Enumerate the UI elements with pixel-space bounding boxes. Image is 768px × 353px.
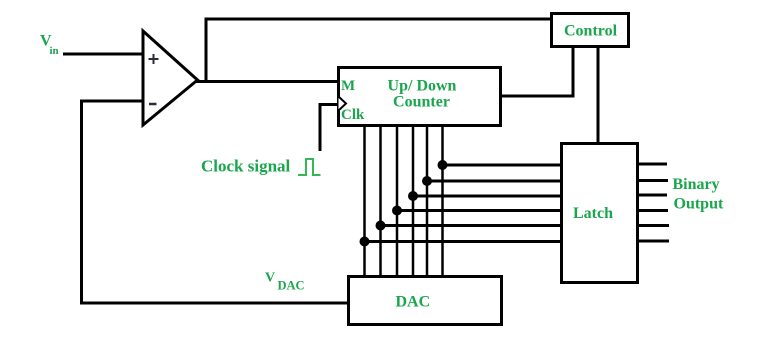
wire Vin to comparator + input [63, 53, 143, 56]
node Vin label [40, 33, 59, 58]
block Up/Down Counter [339, 68, 501, 126]
bus wire bit4 vertical [379, 126, 382, 277]
block DAC [349, 277, 502, 325]
op-amp comparator [143, 31, 198, 125]
bus wire bit5 vertical [363, 126, 366, 277]
junction bit4 [376, 221, 386, 231]
svg-text:Clock signal: Clock signal [201, 157, 291, 176]
wire feedback from DAC to comparator - input [82, 101, 349, 303]
clock edge triangle symbol on counter [339, 97, 347, 111]
svg-text:Binary: Binary [673, 176, 720, 193]
wire bit5 to Latch [365, 240, 562, 243]
svg-text:Latch: Latch [573, 205, 613, 222]
svg-text:in: in [50, 45, 59, 57]
label Up/ Down Counter [388, 78, 457, 111]
wire comparator output to counter M input [196, 80, 339, 83]
svg-text:DAC: DAC [396, 294, 431, 311]
bus wire bit1 vertical [426, 126, 429, 277]
junction bit0 [438, 160, 448, 170]
wire bit2 to Latch [413, 195, 561, 198]
comparator + pin mark [149, 54, 159, 64]
wire bit3 to Latch [397, 209, 561, 212]
svg-text:Output: Output [674, 196, 724, 213]
latch output stub 1 [638, 163, 667, 166]
bus wire bit0 vertical [441, 126, 444, 277]
latch output stub 3 [638, 194, 667, 197]
svg-text:Clk: Clk [341, 107, 365, 123]
svg-text:Up/ Down: Up/ Down [388, 78, 457, 95]
wire bit1 to Latch [427, 180, 561, 183]
wire bit4 to Latch [381, 224, 562, 227]
block Latch [562, 144, 638, 283]
block Control [552, 14, 629, 47]
junction bit5 [360, 237, 370, 247]
bus wire bit2 vertical [412, 126, 415, 277]
junction bit3 [392, 206, 402, 216]
node VDAC label [265, 271, 305, 293]
wire counter output to Control [501, 47, 573, 96]
junction bit2 [408, 191, 418, 201]
svg-text:M: M [341, 78, 355, 94]
label Binary Output [673, 176, 724, 213]
latch output stub 6 [638, 240, 669, 243]
bus wire bit3 vertical [396, 126, 399, 277]
junction bit1 [422, 176, 432, 186]
svg-text:Control: Control [564, 23, 618, 40]
clock pulse symbol [298, 159, 321, 175]
wire comparator output branch up to Control [206, 19, 551, 82]
svg-text:Counter: Counter [393, 94, 450, 111]
wire clock signal input to Clk [320, 105, 337, 152]
comparator - pin mark [149, 103, 157, 106]
latch output stub 2 [638, 179, 668, 182]
latch output stub 5 [638, 224, 669, 227]
latch output stub 4 [638, 209, 668, 212]
wire Control down to Latch [597, 47, 600, 143]
wire bit0 to Latch [443, 164, 562, 167]
svg-text:V: V [265, 271, 275, 286]
svg-text:DAC: DAC [278, 279, 305, 293]
